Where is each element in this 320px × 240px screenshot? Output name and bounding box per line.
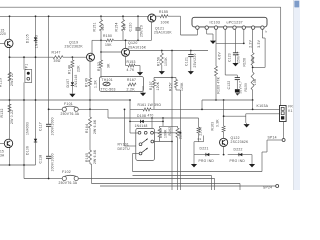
wire D222 row bbox=[228, 154, 252, 156]
wire box gnd bbox=[142, 86, 144, 92]
svg-text:22K: 22K bbox=[77, 65, 81, 72]
svg-text:PRO IND: PRO IND bbox=[199, 159, 215, 163]
wire bus y178 bbox=[49, 178, 62, 180]
fuse F102 bbox=[62, 176, 66, 180]
wire x203.5 stub up bbox=[203, 136, 205, 142]
wire Q119 collector bbox=[91, 40, 93, 53]
ground C123 bbox=[235, 62, 237, 63]
wire bus y176 bbox=[133, 175, 212, 177]
svg-text:D107: D107 bbox=[66, 79, 70, 88]
svg-text:2W 6.8K: 2W 6.8K bbox=[93, 149, 97, 164]
wire pin6 down bbox=[243, 29, 245, 43]
capacitor C122 bbox=[235, 77, 240, 79]
wire x202 up bbox=[201, 100, 203, 109]
wire relay row y133.5 bbox=[153, 132, 180, 134]
svg-text:R153: R153 bbox=[127, 60, 136, 64]
svg-text:560: 560 bbox=[101, 24, 105, 30]
svg-text:DE2TU: DE2TU bbox=[118, 147, 131, 151]
resistor R150 bbox=[106, 39, 114, 42]
svg-text:100K: 100K bbox=[164, 129, 168, 138]
svg-text:100V/1000: 100V/1000 bbox=[51, 153, 55, 171]
svg-text:R151: R151 bbox=[92, 22, 96, 31]
resistor R156 bbox=[160, 53, 163, 65]
wire pin5 col bbox=[235, 29, 237, 53]
svg-text:C118: C118 bbox=[38, 155, 42, 164]
wire C121 bbox=[190, 51, 192, 55]
capacitor C120 bbox=[135, 27, 140, 29]
resistor R151 bbox=[100, 20, 103, 32]
resistor R165 bbox=[89, 150, 92, 162]
relay K103A box bbox=[280, 106, 287, 122]
wire D221 row bbox=[194, 154, 220, 156]
svg-text:C120: C120 bbox=[129, 22, 133, 31]
svg-text:R154: R154 bbox=[114, 22, 118, 31]
svg-text:220K: 220K bbox=[179, 130, 183, 139]
resistor R257 bbox=[175, 80, 178, 88]
resistor R154 bbox=[122, 20, 125, 32]
wire R149 down bbox=[89, 86, 91, 109]
svg-text:01: 01 bbox=[198, 137, 202, 141]
resistor R164 bbox=[89, 117, 92, 128]
wire y126.3 row bbox=[160, 125, 178, 127]
svg-text:250VT6.3A: 250VT6.3A bbox=[59, 181, 78, 185]
wire R155 bbox=[156, 15, 160, 17]
diode D108 bbox=[141, 120, 144, 123]
node dots F101 row bbox=[48, 108, 50, 110]
svg-text:R156: R156 bbox=[156, 57, 160, 66]
node dot R163 mid bbox=[223, 115, 225, 117]
fuse F101 bbox=[62, 107, 66, 111]
svg-text:2W2 22: 2W2 22 bbox=[10, 73, 14, 86]
svg-text:120K: 120K bbox=[180, 82, 184, 91]
svg-text:IC103: IC103 bbox=[210, 20, 221, 24]
node dot Q122 bbox=[223, 154, 225, 156]
svg-text:F101: F101 bbox=[64, 102, 73, 106]
wire y77.5 row bbox=[154, 77, 176, 79]
ground relay coil bbox=[246, 123, 248, 124]
wire y115.5 to relay bbox=[224, 115, 246, 117]
svg-text:1N4003: 1N4003 bbox=[25, 122, 29, 135]
RY101 switch pivots bbox=[139, 143, 142, 146]
svg-text:R155: R155 bbox=[159, 10, 168, 14]
ground D107 bbox=[71, 93, 73, 94]
resistor R129 bbox=[8, 72, 11, 81]
wire pin4 jog bbox=[224, 29, 226, 75]
diode D221 bbox=[206, 153, 209, 156]
svg-text:uPC1237: uPC1237 bbox=[227, 20, 243, 24]
wire pin7 col bbox=[252, 29, 254, 52]
wire RY101 bottom-left pin bbox=[133, 153, 140, 155]
svg-text:D221: D221 bbox=[200, 146, 209, 150]
svg-text:K103A: K103A bbox=[257, 104, 269, 108]
svg-text:TP1: TP1 bbox=[24, 64, 28, 71]
svg-text:R129: R129 bbox=[0, 78, 2, 87]
wire Q117 base bbox=[0, 43, 5, 45]
wire R148-D107 bbox=[71, 57, 73, 60]
wire corner x24 to y178 bbox=[24, 178, 49, 180]
svg-text:220: 220 bbox=[0, 32, 6, 36]
svg-text:D105: D105 bbox=[25, 34, 29, 43]
transistor Q121 bbox=[148, 14, 156, 22]
resistor R132 bbox=[8, 104, 11, 112]
wire bus y16 bbox=[0, 15, 148, 17]
wire R159 bottom bbox=[252, 90, 254, 100]
svg-text:R148: R148 bbox=[68, 65, 72, 74]
svg-text:3A: 3A bbox=[0, 153, 5, 157]
svg-text:2W 0.22: 2W 0.22 bbox=[10, 110, 14, 124]
svg-text:R159: R159 bbox=[244, 83, 248, 92]
svg-text:4.6V: 4.6V bbox=[217, 52, 221, 60]
wire pin3 down bbox=[215, 29, 217, 43]
svg-text:2SA1016K: 2SA1016K bbox=[154, 31, 172, 35]
wire bus y183 bbox=[92, 183, 241, 185]
wire x172 bbox=[171, 51, 173, 142]
wire bus y185.7 bbox=[100, 185, 276, 187]
resistor R162 bbox=[176, 128, 179, 137]
wire x252 down bbox=[252, 100, 254, 109]
ground D222 bbox=[251, 163, 253, 164]
wire bus y178 drop bbox=[214, 179, 216, 191]
relay RY101 box bbox=[136, 128, 155, 160]
svg-text:1N4148: 1N4148 bbox=[74, 74, 78, 87]
wire y100 right bbox=[202, 99, 253, 101]
resistor R161 bbox=[143, 108, 151, 111]
node dot R163 top bbox=[223, 99, 225, 101]
wire F101 row bbox=[49, 108, 63, 110]
wire R156 bbox=[161, 51, 163, 54]
ground C121 bbox=[190, 70, 192, 71]
svg-text:SP24: SP24 bbox=[263, 186, 272, 190]
wire box right x262 bbox=[261, 152, 263, 172]
wire top bus V+ bbox=[0, 6, 281, 8]
svg-text:1.2K: 1.2K bbox=[94, 80, 98, 88]
RY101 top pins bbox=[138, 131, 141, 134]
svg-text:470: 470 bbox=[148, 114, 154, 118]
node dot y132.8 bbox=[180, 132, 182, 134]
wire R150 row bbox=[92, 39, 106, 41]
wire C123 bottom bbox=[235, 55, 237, 62]
diode D107 bbox=[71, 82, 74, 85]
svg-text:3K: 3K bbox=[106, 63, 110, 68]
wire D107 to gnd bbox=[71, 86, 73, 93]
resistor R155 bbox=[160, 15, 168, 18]
svg-text:R160 47K: R160 47K bbox=[217, 76, 221, 93]
node dot x172 y77.5 bbox=[171, 77, 173, 79]
capacitor C121 bbox=[188, 54, 193, 56]
resistor R147 bbox=[53, 56, 63, 59]
svg-text:2.2V: 2.2V bbox=[249, 39, 253, 47]
svg-text:R132: R132 bbox=[0, 108, 4, 117]
diode D105 bbox=[34, 37, 37, 40]
wire x180 to IC pin1 bbox=[180, 16, 182, 35]
svg-text:15K: 15K bbox=[105, 43, 112, 47]
capacitor C123 bbox=[233, 52, 238, 54]
svg-text:1N4148: 1N4148 bbox=[135, 124, 148, 128]
wire R152 bbox=[100, 40, 102, 60]
svg-text:R162: R162 bbox=[168, 127, 172, 136]
wire R158 corner bbox=[253, 66, 266, 68]
transistor Q118 bbox=[4, 139, 12, 147]
resistor R159 bbox=[251, 72, 254, 90]
svg-text:PRO IND: PRO IND bbox=[230, 159, 246, 163]
svg-text:50V/4.7: 50V/4.7 bbox=[238, 81, 242, 94]
node dot x130 bbox=[129, 99, 131, 101]
wire rail x24 bbox=[23, 57, 25, 69]
svg-text:250VT6.3A: 250VT6.3A bbox=[61, 112, 80, 116]
transistor Q117 bbox=[5, 39, 13, 47]
resistor R148 bbox=[71, 60, 74, 68]
svg-text:2SC2362K: 2SC2362K bbox=[65, 45, 84, 49]
ground D221 bbox=[193, 163, 195, 164]
svg-text:25V/47: 25V/47 bbox=[236, 51, 240, 63]
node dots y165 bbox=[9, 164, 11, 166]
node dots y100 bbox=[9, 99, 11, 101]
svg-text:2W 6.8K: 2W 6.8K bbox=[93, 119, 97, 134]
RY101 switch levers bbox=[142, 139, 148, 144]
wire rail x35.5 (diode chain) bbox=[35, 16, 37, 165]
svg-text:b: b bbox=[266, 29, 268, 33]
wire K103A down bbox=[283, 122, 285, 139]
wire bus y50.5 bbox=[130, 50, 208, 52]
node dot C118 at y178 bbox=[48, 178, 50, 180]
svg-text:R164: R164 bbox=[85, 124, 89, 133]
capacitor C118 bbox=[46, 155, 51, 157]
resistor R255 bbox=[158, 128, 161, 137]
svg-text:100K: 100K bbox=[161, 21, 170, 25]
svg-text:120K: 120K bbox=[156, 81, 160, 90]
op-amp IC103 body bbox=[192, 17, 267, 27]
node dot x202 bbox=[201, 109, 203, 111]
wire box bottom y171.5 bbox=[133, 171, 263, 173]
wire x163 drop2 bbox=[162, 118, 164, 126]
svg-text:R257: R257 bbox=[168, 82, 172, 91]
svg-text:100V/1000: 100V/1000 bbox=[51, 117, 55, 135]
wire R160 col bbox=[215, 43, 217, 66]
ground TH box bbox=[142, 92, 144, 93]
TH101 box bbox=[100, 77, 144, 92]
wire pin2 to gnd bbox=[206, 29, 208, 34]
ground R153 bbox=[139, 71, 141, 72]
svg-text:2SC2362K: 2SC2362K bbox=[231, 140, 249, 144]
svg-text:D108: D108 bbox=[137, 114, 146, 118]
svg-text:R149: R149 bbox=[85, 78, 89, 87]
svg-text:100K: 100K bbox=[164, 57, 168, 66]
svg-text:1N4003: 1N4003 bbox=[35, 35, 39, 48]
svg-text:SP14: SP14 bbox=[268, 136, 277, 140]
svg-text:3.3V: 3.3V bbox=[257, 39, 261, 47]
wire y141.7 stub bbox=[194, 141, 204, 143]
wire bus y100 bbox=[0, 99, 130, 101]
node dots y50.5 bbox=[161, 50, 163, 52]
scrollbar track bbox=[294, 0, 300, 190]
svg-text:25V/10: 25V/10 bbox=[139, 25, 143, 37]
node dots D108 bbox=[129, 121, 131, 123]
ground R156 bbox=[161, 70, 163, 71]
wire R165 down bbox=[89, 162, 91, 164]
wire bus y57 bbox=[10, 56, 54, 58]
node dot R160 bottom bbox=[215, 99, 217, 101]
terminal SP24 bbox=[276, 185, 279, 188]
wire R164 bbox=[89, 109, 91, 117]
node dot base row bbox=[100, 51, 102, 53]
svg-text:C122: C122 bbox=[227, 81, 231, 90]
node dot coil feed bbox=[124, 109, 126, 111]
wire R162 bbox=[177, 126, 179, 128]
node dot R150 bbox=[100, 39, 102, 41]
relay contacts bbox=[281, 107, 284, 110]
wire 220K col bbox=[198, 118, 200, 127]
resistor R153 bbox=[128, 64, 135, 67]
wire R154 bbox=[122, 16, 124, 19]
wire Q121 emitter drop bbox=[151, 22, 153, 40]
transistor Q120 bbox=[122, 48, 130, 56]
wire V+ drop to relay bbox=[280, 7, 282, 106]
wire Q120 base row bbox=[101, 51, 121, 53]
svg-text:R157: R157 bbox=[149, 81, 153, 90]
node dots y57 bbox=[9, 56, 11, 58]
resistor R164b 220K bbox=[197, 127, 200, 133]
svg-text:C123: C123 bbox=[227, 53, 231, 62]
wire Q122 emitter bbox=[223, 147, 225, 155]
svg-text:220K: 220K bbox=[199, 126, 203, 135]
wire D108 row bbox=[130, 120, 164, 122]
svg-text:R165: R165 bbox=[85, 153, 89, 162]
svg-text:TTC-503: TTC-503 bbox=[101, 87, 116, 91]
svg-text:2.2K: 2.2K bbox=[127, 87, 136, 91]
wire R163 bbox=[223, 100, 225, 126]
wire relay row y141.5 bbox=[154, 141, 172, 143]
node dot R158 corner bbox=[252, 67, 254, 69]
svg-text:D106: D106 bbox=[25, 146, 29, 155]
node dot y100 right bbox=[252, 99, 254, 101]
wire Q119 emitter bbox=[89, 61, 91, 78]
wire left rail x9 bbox=[9, 16, 11, 39]
node dot pin6 bbox=[243, 43, 245, 45]
IC103 pins bbox=[196, 26, 199, 29]
wire Q118 base bbox=[0, 143, 4, 145]
scrollbar thumb bbox=[294, 1, 299, 8]
wire y118 row bbox=[108, 117, 199, 119]
transistor Q119 bbox=[87, 53, 95, 61]
svg-text:F102: F102 bbox=[62, 170, 71, 174]
wire R255 bbox=[159, 126, 161, 128]
ground C122 bbox=[235, 89, 240, 92]
diode D222 bbox=[239, 153, 242, 156]
wire C122 bottom bbox=[236, 80, 238, 89]
wire x152 drop bbox=[151, 118, 153, 128]
wire x130 relay bbox=[129, 109, 131, 121]
svg-text:4.7K: 4.7K bbox=[127, 68, 135, 72]
ground pin2 bbox=[212, 39, 214, 40]
node dot y141.5 bbox=[171, 141, 173, 143]
svg-text:R255: R255 bbox=[159, 129, 163, 138]
node dots on y16 bbox=[9, 15, 11, 17]
wire D221 gnd drop bbox=[193, 155, 195, 163]
svg-text:3.3K: 3.3K bbox=[215, 119, 219, 127]
svg-text:R150: R150 bbox=[103, 34, 112, 38]
svg-text:TH101: TH101 bbox=[102, 78, 113, 82]
svg-text:D222: D222 bbox=[234, 147, 243, 151]
resistor R152 bbox=[100, 60, 103, 68]
svg-text:2SA1016K: 2SA1016K bbox=[128, 45, 147, 49]
wire R157 bbox=[153, 78, 155, 80]
resistor R163 bbox=[222, 126, 225, 132]
svg-text:C117: C117 bbox=[38, 122, 42, 131]
resistor R160 bbox=[215, 66, 218, 76]
resistor R158 bbox=[251, 53, 254, 66]
terminal SP14 bbox=[282, 139, 285, 142]
wire x172 drop bbox=[171, 142, 173, 191]
node dot x252 bbox=[252, 109, 254, 111]
wire R151 bbox=[100, 16, 102, 19]
thermistor TH101 bbox=[103, 82, 110, 86]
svg-text:R158: R158 bbox=[242, 58, 246, 67]
wire Q120 emitter bbox=[125, 56, 127, 65]
svg-text:39Ω: 39Ω bbox=[54, 59, 61, 63]
wire rail x48.6 (cap chain) bbox=[48, 16, 50, 124]
wire bus y43.4 bbox=[216, 42, 244, 44]
svg-text:43K: 43K bbox=[123, 23, 127, 30]
wire R161 row bbox=[130, 108, 143, 110]
svg-text:C121: C121 bbox=[185, 57, 189, 66]
node dots y118 bbox=[151, 117, 153, 119]
wire box left x132.5 bbox=[132, 154, 134, 172]
diode D106 bbox=[34, 139, 37, 142]
resistor R167 bbox=[128, 83, 136, 86]
wire coil feed x124.5 bbox=[124, 109, 126, 146]
svg-text:R152: R152 bbox=[97, 62, 101, 71]
wire SP14 row bbox=[267, 139, 282, 141]
wire x130 corner bbox=[129, 100, 131, 109]
svg-text:K1: K1 bbox=[288, 109, 292, 113]
svg-text:R161 1W 39Ω: R161 1W 39Ω bbox=[138, 103, 162, 107]
resistor R149 bbox=[89, 78, 92, 86]
wire bus y165 bbox=[0, 164, 36, 166]
wire R257 bbox=[175, 78, 177, 80]
resistor R157 bbox=[153, 80, 156, 88]
capacitor C117 bbox=[46, 123, 51, 125]
svg-text:25V/220: 25V/220 bbox=[193, 53, 197, 67]
svg-text:R163: R163 bbox=[211, 122, 215, 131]
wire x194 drop bbox=[193, 142, 195, 155]
RY101 right pin bbox=[151, 140, 154, 143]
wire R152 into box bbox=[100, 77, 102, 79]
svg-text:R147: R147 bbox=[52, 50, 61, 54]
transistor Q122 bbox=[220, 138, 228, 146]
svg-text:R167: R167 bbox=[127, 78, 136, 82]
wire C120 bbox=[137, 16, 139, 28]
wire x180 down bbox=[179, 90, 181, 190]
node dot R154 top bbox=[122, 15, 124, 17]
test point TP1 bbox=[25, 70, 32, 83]
